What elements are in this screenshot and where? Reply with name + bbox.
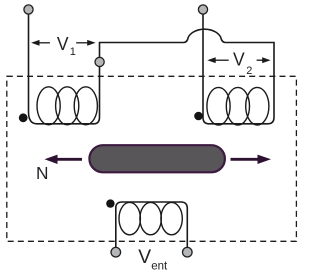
svg-text:V: V (138, 247, 151, 268)
svg-text:V: V (57, 34, 69, 54)
svg-text:1: 1 (70, 46, 76, 58)
svg-text:ent: ent (151, 261, 168, 273)
svg-text:V: V (233, 50, 245, 70)
svg-text:N: N (36, 163, 49, 183)
svg-text:2: 2 (246, 65, 252, 77)
